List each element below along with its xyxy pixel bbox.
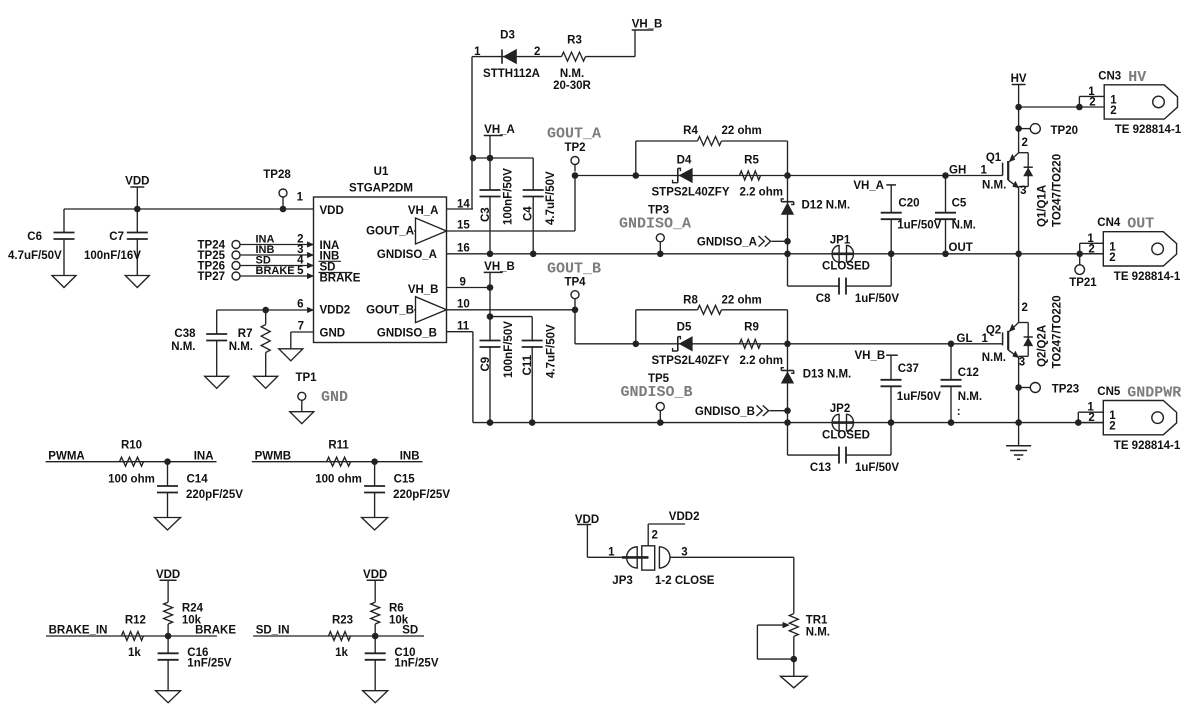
svg-text:1uF/50V: 1uF/50V: [897, 220, 941, 232]
svg-text:4.7uF/50V: 4.7uF/50V: [8, 250, 62, 262]
svg-text:16: 16: [457, 243, 470, 255]
svg-text::: :: [957, 406, 961, 418]
svg-text:C11: C11: [522, 354, 534, 375]
svg-text:GNDISO_A: GNDISO_A: [619, 216, 691, 233]
svg-text:1k: 1k: [128, 647, 141, 659]
svg-text:CLOSED: CLOSED: [822, 261, 870, 273]
svg-text:BRAKE: BRAKE: [256, 265, 295, 277]
svg-text:R5: R5: [744, 155, 759, 167]
svg-text:TE 928814-1: TE 928814-1: [1115, 124, 1182, 136]
svg-text:VH_B: VH_B: [408, 284, 439, 296]
svg-text:6: 6: [297, 299, 303, 311]
svg-text:U1: U1: [374, 166, 389, 178]
svg-text:2: 2: [1022, 137, 1028, 149]
svg-text:VDD2: VDD2: [320, 305, 351, 317]
svg-text:GOUT_B: GOUT_B: [366, 305, 414, 317]
svg-text:GNDISO_A: GNDISO_A: [377, 249, 437, 261]
svg-text:2: 2: [1109, 421, 1115, 433]
svg-text:D4: D4: [677, 155, 692, 167]
svg-text:15: 15: [457, 220, 470, 232]
svg-text:1: 1: [297, 192, 304, 204]
svg-text:100 ohm: 100 ohm: [108, 474, 155, 486]
svg-text:2: 2: [534, 46, 540, 58]
svg-text:C4: C4: [523, 206, 535, 221]
svg-text:STPS2L40ZFY: STPS2L40ZFY: [652, 187, 730, 199]
svg-text:VH_A: VH_A: [853, 180, 884, 192]
svg-text:C7: C7: [109, 231, 124, 243]
svg-text:TO247/TO220: TO247/TO220: [1052, 154, 1064, 227]
svg-text:D5: D5: [677, 322, 692, 334]
svg-text:TP28: TP28: [263, 169, 291, 181]
svg-text:VDD: VDD: [125, 176, 149, 188]
svg-text:2: 2: [1022, 302, 1028, 314]
svg-text:C3: C3: [480, 207, 492, 222]
svg-text:R7: R7: [238, 328, 253, 340]
svg-text:R10: R10: [121, 440, 142, 452]
svg-text:SD: SD: [402, 625, 418, 637]
svg-text:N.M.: N.M.: [982, 180, 1006, 192]
svg-text:GH: GH: [949, 165, 966, 177]
svg-text:BRAKE: BRAKE: [195, 625, 236, 637]
svg-text:100nF/16V: 100nF/16V: [84, 250, 141, 262]
svg-text:JP2: JP2: [830, 403, 850, 415]
svg-text:PWMB: PWMB: [255, 451, 291, 463]
svg-text:D13 N.M.: D13 N.M.: [803, 369, 852, 381]
svg-text:20-30R: 20-30R: [553, 80, 591, 92]
svg-text:GL: GL: [957, 333, 973, 345]
svg-text:JP1: JP1: [830, 234, 851, 246]
svg-text:4.7uF/50V: 4.7uF/50V: [546, 324, 558, 378]
svg-text:GND: GND: [321, 389, 348, 406]
svg-text:2: 2: [1089, 97, 1095, 109]
svg-text:C14: C14: [187, 474, 209, 486]
svg-text:R23: R23: [332, 615, 353, 627]
svg-text:GOUT_A: GOUT_A: [547, 126, 601, 143]
svg-text:1-2 CLOSE: 1-2 CLOSE: [655, 575, 715, 587]
svg-text:CN5: CN5: [1097, 386, 1121, 398]
svg-text:3: 3: [1020, 185, 1026, 197]
svg-text:C38: C38: [174, 328, 196, 340]
svg-text:100nF/50V: 100nF/50V: [503, 321, 515, 378]
svg-text:TP1: TP1: [295, 372, 317, 384]
svg-text:R3: R3: [567, 35, 582, 47]
svg-text:OUT: OUT: [1127, 216, 1154, 233]
svg-text:1uF/50V: 1uF/50V: [855, 462, 899, 474]
svg-text:100 ohm: 100 ohm: [315, 474, 362, 486]
svg-text:2.2 ohm: 2.2 ohm: [740, 187, 783, 199]
svg-text:220pF/25V: 220pF/25V: [186, 489, 243, 501]
svg-text:1: 1: [608, 547, 615, 559]
svg-text:STGAP2DM: STGAP2DM: [349, 183, 413, 195]
svg-text:HV: HV: [1011, 73, 1027, 85]
svg-text:TP23: TP23: [1052, 384, 1080, 396]
svg-text:R4: R4: [683, 125, 698, 137]
svg-text:C8: C8: [816, 293, 831, 305]
svg-text:1k: 1k: [335, 647, 348, 659]
svg-text:VDD2: VDD2: [669, 511, 700, 523]
svg-text:2: 2: [1109, 252, 1115, 264]
svg-text:4.7uF/50V: 4.7uF/50V: [545, 171, 557, 225]
svg-text:Q1/Q1A: Q1/Q1A: [1037, 185, 1049, 227]
svg-text:INB: INB: [400, 451, 420, 463]
svg-text:JP3: JP3: [612, 575, 632, 587]
svg-text:VDD: VDD: [320, 205, 344, 217]
svg-text:GND: GND: [320, 328, 346, 340]
svg-text:D3: D3: [500, 30, 515, 42]
svg-text:C37: C37: [898, 363, 919, 375]
svg-text:GNDISO_B: GNDISO_B: [377, 328, 437, 340]
svg-text:Q1: Q1: [986, 152, 1002, 164]
svg-text:2: 2: [1088, 412, 1094, 424]
svg-text:CN3: CN3: [1098, 70, 1121, 82]
svg-text:TR1: TR1: [806, 615, 828, 627]
svg-text:OUT: OUT: [949, 242, 973, 254]
svg-text:3: 3: [1019, 357, 1025, 369]
svg-text:R9: R9: [744, 322, 759, 334]
svg-text:TP2: TP2: [564, 142, 585, 154]
svg-text:N.M.: N.M.: [952, 220, 976, 232]
svg-text:C13: C13: [810, 462, 831, 474]
svg-text:SD_IN: SD_IN: [256, 625, 290, 637]
svg-text:1uF/50V: 1uF/50V: [897, 391, 941, 403]
svg-text:C20: C20: [898, 198, 919, 210]
svg-text:22 ohm: 22 ohm: [722, 295, 762, 307]
svg-text:STPS2L40ZFY: STPS2L40ZFY: [652, 355, 730, 367]
svg-text:2: 2: [652, 530, 658, 542]
svg-text:22 ohm: 22 ohm: [722, 125, 762, 137]
svg-text:11: 11: [457, 321, 470, 333]
svg-text:R6: R6: [389, 603, 404, 615]
svg-text:BRAKE: BRAKE: [320, 273, 361, 285]
svg-text:R11: R11: [328, 440, 349, 452]
svg-text:VH_B: VH_B: [632, 19, 663, 31]
svg-text:C9: C9: [480, 357, 492, 372]
svg-text:10: 10: [457, 299, 470, 311]
svg-text:N.M.: N.M.: [806, 626, 830, 638]
svg-text:GOUT_A: GOUT_A: [366, 226, 414, 238]
svg-text:INA: INA: [194, 451, 214, 463]
svg-text:GNDISO_B: GNDISO_B: [620, 384, 692, 401]
svg-text:GNDISO_A: GNDISO_A: [697, 237, 757, 249]
svg-text:C15: C15: [394, 474, 416, 486]
svg-text:100nF/50V: 100nF/50V: [503, 168, 515, 225]
svg-text:1uF/50V: 1uF/50V: [855, 293, 899, 305]
svg-text:GNDPWR: GNDPWR: [1127, 385, 1181, 402]
svg-text:C6: C6: [27, 231, 42, 243]
svg-text:R12: R12: [125, 615, 146, 627]
svg-text:TE 928814-1: TE 928814-1: [1114, 440, 1181, 452]
svg-text:N.M.: N.M.: [958, 391, 982, 403]
svg-text:GOUT_B: GOUT_B: [547, 261, 601, 278]
svg-text:TP4: TP4: [564, 277, 586, 289]
svg-text:R24: R24: [182, 603, 204, 615]
svg-text:N.M.: N.M.: [229, 341, 253, 353]
svg-text:C5: C5: [952, 198, 967, 210]
svg-text:TO247/TO220: TO247/TO220: [1052, 295, 1064, 368]
svg-text:Q2/Q2A: Q2/Q2A: [1037, 325, 1049, 367]
svg-text:1nF/25V: 1nF/25V: [394, 658, 438, 670]
svg-text:7: 7: [298, 321, 304, 333]
svg-text:VH_A: VH_A: [408, 205, 439, 217]
svg-text:CLOSED: CLOSED: [822, 430, 870, 442]
svg-text:VH_B: VH_B: [855, 350, 886, 362]
svg-text:220pF/25V: 220pF/25V: [393, 489, 450, 501]
svg-text:BRAKE_IN: BRAKE_IN: [49, 625, 108, 637]
svg-text:PWMA: PWMA: [48, 451, 84, 463]
svg-text:D12 N.M.: D12 N.M.: [802, 200, 851, 212]
svg-text:GNDISO_B: GNDISO_B: [695, 406, 755, 418]
svg-text:1: 1: [981, 165, 988, 177]
svg-text:CN4: CN4: [1097, 217, 1121, 229]
svg-text:TP27: TP27: [198, 271, 226, 283]
svg-text:R8: R8: [683, 295, 698, 307]
svg-text:9: 9: [460, 277, 466, 289]
svg-text:Q2: Q2: [986, 325, 1001, 337]
svg-text:N.M.: N.M.: [171, 341, 195, 353]
svg-text:VH_B: VH_B: [484, 261, 515, 273]
svg-text:5: 5: [297, 265, 304, 277]
svg-text:VDD: VDD: [363, 569, 387, 581]
svg-text:TE 928814-1: TE 928814-1: [1114, 271, 1181, 283]
svg-text:2: 2: [1110, 105, 1116, 117]
svg-text:STTH112A: STTH112A: [483, 68, 540, 80]
svg-text:2.2 ohm: 2.2 ohm: [740, 355, 783, 367]
svg-text:TP21: TP21: [1069, 277, 1097, 289]
svg-text:N.M.: N.M.: [982, 352, 1006, 364]
svg-text:1: 1: [474, 46, 481, 58]
svg-text:HV: HV: [1128, 69, 1146, 86]
svg-text:2: 2: [1088, 243, 1094, 255]
svg-text:N.M.: N.M.: [560, 68, 584, 80]
svg-text:1nF/25V: 1nF/25V: [187, 658, 231, 670]
svg-text:C12: C12: [958, 367, 979, 379]
svg-text:VH_A: VH_A: [484, 124, 515, 136]
svg-text:TP20: TP20: [1051, 125, 1079, 137]
svg-text:VDD: VDD: [156, 569, 180, 581]
